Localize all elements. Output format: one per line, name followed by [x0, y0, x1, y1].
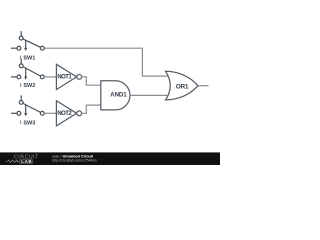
wire OR1 output	[198, 85, 209, 87]
wire NOT1 to AND1 top input	[82, 77, 101, 85]
or gate OR1	[166, 71, 198, 100]
CircuitLab logo resistor zigzag	[6, 160, 19, 163]
CircuitLab logo LAB box	[20, 159, 33, 163]
svg-text:OR1: OR1	[176, 83, 189, 90]
wire NOT2 to AND1 bottom input	[82, 105, 101, 113]
svg-text:SW3: SW3	[23, 120, 35, 126]
svg-text:NOT1: NOT1	[57, 75, 72, 81]
inverter NOT2	[56, 101, 81, 126]
wire AND1 output to OR1 bottom input	[130, 94, 167, 96]
svg-text:LAB: LAB	[21, 159, 32, 164]
switch SW3	[11, 95, 44, 124]
wire SW2 to NOT1 input	[44, 76, 56, 78]
switch SW2	[11, 59, 44, 87]
switch SW1	[11, 31, 44, 59]
svg-text:AND1: AND1	[110, 92, 127, 99]
wire SW3 to NOT2 input	[44, 112, 56, 114]
svg-text:http://circuitlab.com/c/7548wn: http://circuitlab.com/c/7548wn	[52, 158, 97, 162]
svg-text:NOT2: NOT2	[57, 111, 72, 117]
wire SW1 output to OR1 top input	[44, 48, 168, 76]
inverter NOT1	[56, 64, 81, 89]
and gate AND1	[101, 81, 130, 110]
footer bar	[0, 152, 220, 165]
svg-text:SW2: SW2	[23, 83, 35, 89]
svg-text:SW1: SW1	[23, 56, 35, 62]
